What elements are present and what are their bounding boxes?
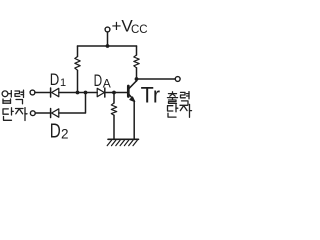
svg-text:D: D	[94, 72, 103, 90]
svg-text:Tr: Tr	[141, 83, 161, 108]
node junction dot (collector/output)	[135, 77, 139, 81]
resistor R1 (left, Vcc to diode node)	[75, 46, 80, 93]
wire output	[137, 78, 176, 80]
wire top rail	[78, 45, 137, 47]
node A junction dot (diode node / resistor)	[76, 91, 80, 95]
transistor Q1 (Tr)	[128, 79, 136, 139]
Vcc terminal circle	[105, 27, 110, 32]
svg-text:2: 2	[61, 127, 69, 142]
출	[168, 92, 178, 104]
wire input1 to D1	[35, 92, 50, 94]
node junction dot at Vcc rail	[106, 44, 110, 48]
자	[16, 108, 28, 121]
diode D1	[51, 88, 59, 97]
단	[168, 105, 178, 118]
wire D2 to riser	[59, 93, 86, 114]
output terminal circle	[175, 77, 180, 82]
입	[2, 91, 11, 104]
력	[181, 92, 190, 105]
wire Vcc stem	[107, 32, 109, 46]
label output terminals (출력 단자) hand-drawn hangul	[168, 92, 192, 118]
자	[180, 104, 192, 117]
diode D2	[51, 109, 59, 118]
collector lead	[129, 81, 137, 89]
base bar	[127, 86, 130, 97]
svg-text:1: 1	[60, 77, 66, 89]
svg-text:D: D	[50, 71, 60, 89]
svg-text:D: D	[50, 120, 61, 143]
svg-text:CC: CC	[131, 24, 148, 36]
input terminal 2 circle	[30, 111, 35, 116]
wire DA to base	[105, 92, 127, 94]
ground	[107, 139, 138, 145]
node junction dot (D2 riser)	[84, 91, 88, 95]
input terminal 1 circle	[30, 90, 35, 95]
단	[3, 108, 13, 121]
node junction dot (base resistor tap)	[112, 91, 116, 95]
label input terminals (입력 단자) hand-drawn hangul	[2, 90, 27, 120]
wire D1 to node	[59, 92, 97, 94]
력	[15, 90, 24, 104]
diode DA	[97, 88, 105, 97]
wire input2 to D2	[35, 112, 50, 114]
svg-text:A: A	[103, 77, 111, 91]
resistor R2 (base pull-down)	[111, 93, 116, 140]
emitter lead with arrow	[129, 94, 133, 99]
resistor R3 (collector load)	[134, 46, 139, 79]
